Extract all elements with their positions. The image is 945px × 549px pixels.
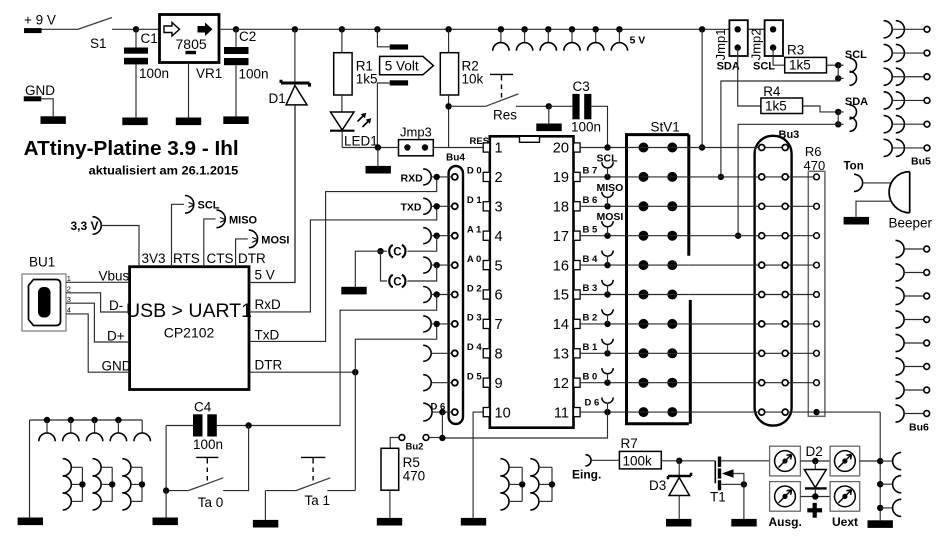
CP2102 pin label Vbus [99, 269, 130, 284]
ground Ta1 [253, 520, 278, 528]
Bu4 pin label A 0 [467, 254, 481, 265]
CP2102 pin label D+ [107, 328, 125, 343]
Bu4 pin label D 5 [467, 372, 483, 383]
+9V supply terminal [24, 13, 56, 34]
svg-text:Bu4: Bu4 [446, 153, 465, 164]
resistor R5 470 [381, 438, 425, 518]
svg-text:BU1: BU1 [29, 255, 55, 270]
wire BU1 pin4 GND [66, 314, 130, 372]
wire BU1 pin3 D+ [66, 303, 130, 342]
svg-text:StV1: StV1 [651, 120, 680, 135]
CP2102 pin label CTS [207, 251, 234, 266]
CP2102 pin label 5V [255, 268, 275, 283]
Bu4 pin label D 1 [467, 195, 483, 206]
StV1 pin dots [639, 143, 678, 418]
wire LED node to ground [377, 148, 379, 166]
svg-text:D-: D- [109, 298, 123, 313]
node SCL row2 [718, 174, 724, 180]
svg-text:9: 9 [495, 376, 503, 392]
svg-text:7805: 7805 [176, 36, 207, 52]
svg-text:D1: D1 [269, 91, 286, 106]
node Res/C3 junction [546, 103, 552, 109]
svg-text:4: 4 [495, 229, 503, 245]
svg-text:> MISO: > MISO [220, 214, 258, 226]
svg-text:Jmp1: Jmp1 [713, 29, 728, 61]
connector Bu3 [755, 129, 800, 426]
Bu4 socket arc row D 3 [423, 316, 452, 332]
svg-text:R4: R4 [763, 84, 781, 99]
wire lower C to A0 [407, 265, 436, 281]
svg-text:C: C [393, 247, 401, 259]
svg-text:VR1: VR1 [196, 66, 222, 81]
wire Ta0 right column [223, 426, 248, 491]
svg-text:R7: R7 [621, 436, 638, 451]
svg-text:T1: T1 [710, 490, 726, 505]
svg-text:4: 4 [67, 306, 71, 315]
Bu4 pin label D 4 [467, 342, 483, 353]
wire DTR to Ta1 [354, 372, 356, 490]
svg-text:Bu5: Bu5 [911, 156, 931, 168]
node R6 bottom D6 [813, 409, 819, 415]
svg-text:470: 470 [403, 469, 426, 484]
measurement jack Ausg bottom-left [770, 482, 801, 512]
Bu4 socket arc row A 0 [423, 257, 452, 273]
node D6 [439, 409, 445, 415]
svg-text:3,3 V: 3,3 V [71, 219, 99, 233]
5V socket row [493, 26, 628, 51]
wire IC pin 20 row [580, 147, 626, 149]
svg-text:D 1: D 1 [467, 195, 483, 206]
transistor socket cluster 1 [63, 459, 86, 510]
svg-text:CP2102: CP2102 [164, 325, 215, 341]
node D2 anode [812, 458, 818, 464]
wire T1 drain [721, 460, 769, 462]
node DTR junction [352, 369, 358, 375]
zener diode D3 [649, 461, 691, 519]
Bu4 socket arc row D 6 [423, 403, 452, 421]
connector BU1 USB [22, 255, 66, 332]
svg-text:MOSI: MOSI [597, 211, 624, 223]
svg-text:R6: R6 [805, 144, 822, 159]
node C1/rail [133, 26, 139, 32]
Eing socket [572, 455, 601, 482]
T1 body diode arrow [722, 469, 744, 477]
svg-text:Beeper: Beeper [889, 216, 933, 231]
ground C1 [122, 118, 147, 126]
svg-text:3: 3 [495, 200, 503, 216]
Bu4 socket arc row D 0 [423, 169, 452, 185]
CP2102 title text [126, 300, 252, 341]
svg-text:17: 17 [553, 229, 569, 245]
Bu4 pin label D 6 [431, 402, 446, 413]
tap label B 1 [583, 342, 599, 353]
IC U2 CP2102 box [130, 267, 249, 390]
tap socket cup row 16 [602, 251, 613, 266]
svg-text:ATtiny-Platine 3.9 - Ihl: ATtiny-Platine 3.9 - Ihl [24, 137, 239, 160]
svg-text:2: 2 [495, 170, 503, 186]
svg-text:+ 9 V: + 9 V [24, 13, 56, 28]
svg-text:D 2: D 2 [467, 283, 482, 294]
svg-text:8: 8 [495, 347, 503, 363]
Bu4 pin label D 0 [467, 166, 482, 177]
wire D6 to Bu2 row [442, 412, 607, 438]
ground C sockets [341, 287, 366, 295]
svg-text:10k: 10k [462, 72, 484, 87]
wire TxD crossover [249, 177, 437, 342]
ground D3 [666, 519, 691, 527]
node D3 [434, 321, 440, 327]
ground socket row [30, 417, 151, 518]
wire IC pin 19 row [580, 176, 626, 178]
tap label B 6 [583, 195, 598, 206]
wire pin1 RES stub [448, 147, 450, 149]
tap socket cup row 12 [602, 368, 613, 383]
wire IC pin 17 row [580, 235, 626, 237]
wire C4 left to Ta0 [165, 426, 167, 491]
node tap row 19 [604, 174, 610, 180]
wire IC pin 12 row [580, 382, 626, 384]
StV1 row wires [627, 148, 689, 413]
svg-text:B 4: B 4 [583, 254, 599, 265]
connector StV1 box [627, 120, 691, 424]
svg-text:6: 6 [495, 288, 503, 304]
svg-text:DTR: DTR [255, 358, 283, 373]
svg-text:D 3: D 3 [467, 313, 482, 324]
wire beeper to ground [856, 201, 892, 217]
Bu3 row wires and circles [689, 145, 788, 416]
svg-text:Uext: Uext [832, 515, 858, 529]
wire T1 source to ground [743, 474, 745, 521]
transistor socket cluster 3 [122, 459, 145, 510]
svg-text:SCL: SCL [597, 152, 619, 164]
Ton socket [844, 161, 864, 192]
svg-text:11: 11 [554, 405, 569, 421]
svg-text:C1: C1 [141, 31, 158, 46]
capacitor C3 [549, 79, 608, 148]
svg-text:1k5: 1k5 [789, 58, 811, 73]
transistor socket cluster 5 [530, 459, 555, 510]
CP2102 pin label 3V3 [142, 251, 166, 266]
CP2102 pin label RxD [255, 297, 281, 312]
svg-text:10: 10 [495, 405, 511, 421]
wire C sockets to ground [355, 251, 380, 287]
ground VR1 [176, 118, 201, 126]
IC U1 pin stubs [483, 143, 580, 417]
svg-text:GND: GND [102, 358, 132, 373]
svg-text:1k5: 1k5 [356, 72, 378, 87]
beeper [889, 172, 933, 231]
node C4/Ta0/D2net [245, 422, 251, 428]
tap label MISO [597, 182, 624, 194]
node D2 [434, 291, 440, 297]
CP2102 pin label D- [109, 298, 123, 313]
wire Jmp2 to R3 [773, 48, 785, 66]
node LED/ground [375, 144, 381, 150]
resistor R2 10k [440, 29, 483, 147]
tap label B 3 [583, 283, 598, 294]
connector Bu5 [884, 21, 930, 157]
svg-text:B 3: B 3 [583, 283, 598, 294]
wire Ta0 to ground [165, 491, 167, 518]
IC U1 ATtiny box [490, 136, 574, 427]
right column socket row 10 [877, 476, 901, 493]
Ausg label [769, 515, 802, 529]
node SCL pullup [835, 62, 841, 82]
ground Ta0 [153, 518, 178, 526]
svg-text:D 6: D 6 [585, 398, 600, 409]
svg-text:5 V: 5 V [630, 34, 646, 46]
wire VR1 gnd pin [188, 63, 190, 118]
resistor R7 100k [619, 436, 679, 469]
ground C2 [223, 116, 248, 124]
node tap row 12 [604, 380, 610, 386]
connector Bu2 [399, 435, 440, 453]
wire Ta1 left to ground [264, 491, 266, 520]
node 5V rail / StV1 column [699, 26, 705, 32]
wire A1 to C socket [407, 236, 436, 252]
svg-text:Ausg.: Ausg. [769, 515, 802, 529]
capacitor C1 [124, 29, 169, 117]
svg-text:100k: 100k [623, 454, 653, 469]
Bu6 label [909, 422, 929, 434]
svg-text:20: 20 [553, 141, 569, 157]
wire SCL to StV1 B7 [721, 81, 838, 177]
svg-text:Eing.: Eing. [572, 468, 601, 482]
wire RxD crossover [249, 206, 437, 312]
diode D2 [804, 444, 826, 497]
wire Res junction to ground [548, 106, 550, 123]
transistor socket cluster 2 [93, 459, 116, 510]
ground right column [868, 520, 893, 528]
MOSI signal socket [249, 230, 290, 248]
node tap row 16 [604, 262, 610, 268]
svg-text:GND: GND [25, 83, 55, 98]
svg-text:A 1: A 1 [467, 225, 482, 236]
ground pin10 [461, 518, 486, 526]
node tap row 15 [604, 291, 610, 297]
wire 5V output [249, 105, 295, 283]
measurement jack Uext top-right [830, 446, 860, 476]
wire S1 to C1 [112, 28, 136, 30]
Uext label [832, 515, 858, 529]
SCL signal socket [185, 196, 220, 214]
svg-text:Jmp2: Jmp2 [749, 29, 764, 61]
ground GND terminal [41, 116, 66, 124]
svg-text:CTS: CTS [207, 251, 234, 266]
plus polarity label [807, 503, 822, 518]
node R2/Res junction [445, 103, 451, 109]
wire Jmp1 to Jmp2 [748, 28, 765, 30]
svg-text:5 V: 5 V [255, 268, 275, 283]
tap label B 0 [583, 371, 598, 382]
svg-text:5 Volt: 5 Volt [385, 58, 419, 73]
tap label SCL [597, 152, 619, 164]
node tap row 14 [604, 321, 610, 327]
capacitor C2 [224, 29, 269, 116]
svg-text:18: 18 [553, 200, 569, 216]
tap socket cup row 17 [602, 221, 613, 236]
TXD label [401, 202, 422, 214]
ground beeper [844, 217, 869, 225]
svg-text:USB > UART1: USB > UART1 [126, 300, 252, 322]
ground socket row bar [18, 518, 43, 526]
svg-text:5: 5 [495, 258, 503, 274]
5 V rail label [630, 34, 646, 46]
svg-text:3V3: 3V3 [142, 251, 166, 266]
svg-text:RTS: RTS [173, 251, 200, 266]
svg-text:RXD: RXD [401, 172, 424, 184]
svg-text:> SCL: > SCL [188, 200, 220, 212]
svg-text:R3: R3 [787, 43, 804, 58]
node A1 [434, 233, 440, 239]
svg-text:Ta 1: Ta 1 [305, 493, 331, 508]
jumper Jmp3 [399, 125, 434, 156]
wire Ton to beeper [863, 182, 891, 184]
svg-text:Bu2: Bu2 [406, 442, 424, 453]
ground R5 [377, 518, 402, 526]
zener diode D1 [269, 29, 310, 282]
subtitle [89, 164, 239, 178]
CP2102 pin label TxD [255, 328, 280, 343]
wire Uext top to right column [860, 460, 881, 462]
ground Res/C3 [536, 124, 561, 132]
SCL jumper label [753, 61, 775, 73]
node SDA row4 [735, 233, 741, 239]
svg-text:14: 14 [553, 317, 569, 333]
tap socket cup row 14 [602, 309, 613, 324]
Bu5 label [911, 156, 931, 168]
transistor T1 MOSFET [710, 457, 726, 505]
wire T1 source [721, 483, 744, 485]
Bu4 pin label A 1 [467, 225, 482, 236]
node D1/rail [292, 26, 298, 32]
wire D2 row to C4/Ta0 [249, 295, 437, 426]
svg-text:SCL: SCL [845, 49, 867, 61]
tap socket cup row 13 [602, 339, 613, 354]
R6 pin wires and circles [788, 174, 819, 386]
Bu4 pin label D 3 [467, 313, 482, 324]
svg-text:MISO: MISO [597, 182, 624, 194]
svg-text:16: 16 [553, 258, 569, 274]
BU1 pin numbers [67, 274, 71, 315]
MISO signal socket [217, 210, 258, 228]
node tap row 20 [604, 144, 610, 150]
node SDA pullup [835, 109, 841, 128]
svg-text:7: 7 [495, 317, 503, 333]
CP2102 pin label DTR right [255, 358, 283, 373]
push button Ta 0 [166, 457, 223, 510]
tap socket cup row 15 [602, 280, 613, 295]
svg-text:1: 1 [67, 274, 71, 283]
5 Volt flag label [380, 56, 434, 74]
wire VR1 to C2 [219, 28, 236, 30]
svg-text:12: 12 [553, 376, 569, 392]
SCL socket pair [838, 49, 867, 85]
connector Bu4 [446, 153, 465, 425]
RXD label [401, 172, 424, 184]
node RXD [434, 174, 440, 180]
Bu4 socket arc row D 1 [423, 198, 452, 214]
wire pin10 to ground [473, 412, 483, 518]
node TXD [434, 203, 440, 209]
node tap row 13 [604, 350, 610, 356]
CP2102 pin label RTS [173, 251, 200, 266]
tap label B 7 [583, 166, 598, 177]
svg-text:> MOSI: > MOSI [252, 234, 290, 246]
svg-text:1k5: 1k5 [765, 98, 787, 113]
SDA socket pair [838, 96, 868, 131]
wire IC pin 11 row [580, 411, 626, 413]
svg-text:S1: S1 [90, 36, 107, 51]
wire Jmp1 to R4 [738, 48, 761, 106]
wire +9V to S1 [42, 28, 79, 30]
node tap row 17 [604, 233, 610, 239]
capacitor socket C upper [377, 245, 405, 259]
Bu4 socket arc row D 4 [423, 345, 452, 361]
tap label B 5 [583, 224, 599, 235]
svg-text:Ta 0: Ta 0 [198, 495, 224, 510]
Bu4 socket arc row D 2 [423, 287, 452, 303]
wire IC pin 14 row [580, 323, 626, 325]
wire jacks top row [800, 460, 830, 462]
wire IC pin 13 row [580, 352, 626, 354]
svg-text:100n: 100n [139, 66, 169, 81]
connector Bu6 [896, 240, 930, 422]
svg-text:D+: D+ [107, 328, 125, 343]
svg-text:1: 1 [495, 141, 503, 157]
node Ta0 left [163, 487, 169, 493]
wire 5V column to StV1 [701, 29, 703, 147]
tap socket cup row 11 [602, 398, 613, 413]
IC U1 pin numbers [495, 141, 570, 422]
5 Volt link pads [377, 29, 408, 147]
svg-text:B 2: B 2 [583, 313, 598, 324]
wire 3V3 [101, 226, 139, 267]
wire DTR to D3 row [355, 324, 436, 372]
svg-text:Bu6: Bu6 [909, 422, 929, 434]
wire BU1 pin1 Vbus [66, 281, 130, 283]
capacitor socket C lower [381, 251, 406, 288]
svg-text:100n: 100n [239, 67, 269, 82]
wire jacks bottom row [800, 496, 830, 498]
wire Bu3 row10 to R6 [788, 411, 813, 413]
wire IC pin 15 row [580, 294, 626, 296]
node R2/rail [445, 26, 451, 32]
ground T1 [731, 519, 756, 527]
wire CTS to MISO socket [204, 219, 216, 267]
tap socket cup row 19 [602, 162, 613, 177]
wire IC pin 16 row [580, 264, 626, 266]
wire R7 to T1 gate [679, 460, 715, 462]
node 5Volt-link/rail [374, 26, 380, 32]
tap label MOSI [597, 211, 624, 223]
node R7/D3 [676, 458, 682, 464]
node A0 [434, 262, 440, 268]
node Bu2 junction [439, 435, 445, 441]
jumper Jmp1 [713, 20, 748, 60]
svg-text:D 5: D 5 [467, 372, 483, 383]
node R1/rail [339, 26, 345, 32]
svg-text:SDA: SDA [845, 96, 868, 108]
node C2/rail [233, 26, 239, 32]
svg-text:C2: C2 [239, 29, 256, 44]
RES pin label [470, 136, 490, 147]
svg-text:15: 15 [553, 288, 569, 304]
Bu4 pin circles [452, 174, 458, 415]
svg-text:100n: 100n [193, 437, 223, 452]
3,3V socket [71, 217, 102, 235]
wire BU1 pin2 D- [66, 293, 130, 312]
